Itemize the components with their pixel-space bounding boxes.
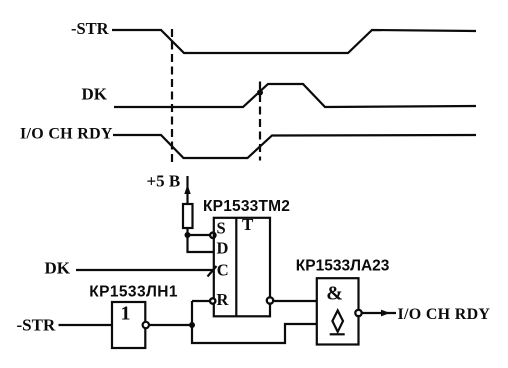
wire gate output [362, 312, 396, 314]
dashed timing marker t1 [171, 29, 173, 162]
svg-text:I/O CH RDY: I/O CH RDY [20, 126, 113, 143]
svg-text:I/O CH RDY: I/O CH RDY [398, 306, 491, 323]
dashed timing marker t2 [259, 82, 261, 161]
output arrowhead [381, 310, 390, 317]
inverter U2 КР1533ЛН1 body [112, 302, 145, 348]
node junction at inverter output [189, 322, 195, 328]
svg-text:R: R [217, 290, 230, 309]
wire node up to R pin [191, 301, 193, 325]
C dynamic input slash [208, 266, 217, 277]
S pin bubble [210, 233, 215, 238]
svg-text:&: & [326, 282, 343, 304]
svg-text:1: 1 [121, 303, 131, 325]
svg-text:D: D [217, 239, 229, 258]
flip-flop U1 divider [235, 218, 237, 316]
svg-text:+5 В: +5 В [147, 172, 181, 191]
svg-text:КР1533ЛА23: КР1533ЛА23 [296, 258, 390, 275]
svg-text:S: S [217, 218, 226, 237]
svg-text:-STR: -STR [71, 19, 110, 38]
svg-text:КР1533ТМ2: КР1533ТМ2 [203, 198, 290, 215]
svg-text:C: C [217, 261, 229, 280]
waveform -STR [112, 30, 476, 53]
resistor R1 [183, 204, 193, 228]
wire resistor to node [186, 228, 188, 236]
node junction below resistor [185, 232, 191, 238]
Q output bubble [267, 297, 273, 303]
svg-text:DK: DK [82, 84, 108, 103]
waveform DK [114, 84, 476, 107]
wire Q output to gate input [273, 300, 316, 302]
gate output bubble [355, 310, 361, 316]
wire DK to C pin [76, 269, 214, 271]
wire node to D pin [188, 235, 214, 252]
NAND gate U3 КР1533ЛА23 body [317, 278, 359, 344]
wire inverter output to node [149, 324, 192, 326]
junction dot on DK rising edge [257, 90, 263, 96]
wire node around to gate lower input [192, 324, 317, 343]
R pin bubble [210, 298, 215, 303]
wire node to R pin [192, 300, 210, 302]
svg-text:T: T [242, 215, 254, 234]
wire -STR to inverter [59, 324, 113, 326]
flip-flop U1 КР1533ТМ2 body [214, 218, 270, 316]
waveform I/O CH RDY [113, 135, 476, 158]
wire node to S pin [188, 234, 210, 236]
open-collector symbol [330, 311, 345, 335]
inverter output bubble [143, 322, 149, 328]
svg-text:-STR: -STR [17, 316, 56, 335]
svg-text:DK: DK [45, 258, 71, 277]
svg-text:КР1533ЛН1: КР1533ЛН1 [89, 283, 178, 300]
+5V supply arrow [184, 176, 190, 204]
